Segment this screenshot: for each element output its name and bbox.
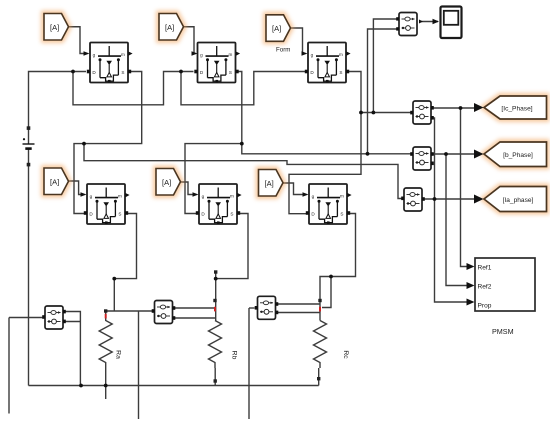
goto tag [b_Phase]: [474, 142, 547, 167]
current measurement block CM5: [152, 301, 176, 324]
wire: phase B M2 source down to CM2 line: [237, 72, 411, 154]
wire: Rb feed vertical: [215, 272, 217, 321]
svg-text:[Ia_phase]: [Ia_phase]: [503, 197, 534, 204]
current measurement block CM6: [255, 296, 279, 319]
voltage measurement block VM1: [396, 13, 423, 36]
svg-text:Form: Form: [276, 47, 290, 54]
wire: tag3 to M3 gate: [291, 28, 305, 54]
wire: VM1 lower input from phase B line: [368, 29, 398, 154]
wire: Ra feed vertical: [113, 279, 115, 311]
current measurement block CM2: [410, 147, 434, 170]
current measurement block CM1: [410, 101, 434, 124]
goto tag [Ic_Phase]: [474, 96, 547, 119]
svg-text:[b_Phase]: [b_Phase]: [503, 152, 533, 159]
wire: DC+ jog to M2 drain: [73, 72, 194, 105]
svg-text:Rc: Rc: [342, 350, 349, 359]
goto tag [Ia_phase]: [474, 187, 547, 212]
wire: Ref1 feed from CM1 output: [461, 108, 472, 267]
wire: phase A from M1 source down-left to M4 drain: [74, 72, 142, 214]
from tag [A] 1: [44, 14, 69, 41]
wire: VM1 upper input from phase C line: [373, 19, 397, 113]
from tag [A] 5: [156, 169, 181, 196]
current measurement block CM3: [401, 188, 425, 211]
svg-text:Ref2: Ref2: [478, 284, 492, 291]
wire: M5 source down to Rb branch: [216, 214, 248, 279]
current measurement block CM4: [42, 306, 66, 329]
scope block: [433, 7, 462, 39]
wire: phase B branch to M5 drain: [185, 144, 242, 214]
wire: CM5 input line down to bottom: [138, 311, 140, 419]
svg-text:PMSM: PMSM: [492, 327, 514, 336]
wire: DC+ jog to M3 drain: [181, 72, 305, 105]
wire: CM5 loop lower to Rb node: [173, 317, 215, 319]
wire: Ref2 feed from CM2 output: [446, 154, 471, 286]
wire: Prop feed line down right of CM blocks: [433, 118, 471, 302]
node: DC+ tap at battery: [71, 70, 75, 74]
wire: Rc bottom to bus corner: [318, 368, 320, 386]
wire: Rb bottom to bus: [214, 368, 216, 386]
svg-text:Ra: Ra: [115, 350, 122, 359]
wire: CM6 input stub: [249, 307, 255, 309]
svg-text:Rb: Rb: [231, 351, 238, 360]
wire: CM4 loop lower: [64, 321, 80, 323]
wire: CM6 loop lower to Rc node: [277, 312, 320, 314]
transistor M1 (MOSFET top leg A): [84, 43, 133, 83]
svg-text:Prop: Prop: [478, 303, 492, 310]
node: VM1 lower tap: [366, 152, 370, 156]
transistor M4 (MOSFET bottom leg A): [81, 184, 130, 224]
from tag [A] 3: [266, 15, 291, 54]
PMSM subsystem block: [467, 258, 536, 336]
from tag [A] 2: [159, 14, 184, 41]
wire: CM6 input line down to bottom: [248, 308, 250, 419]
resistor Ra: [99, 309, 122, 368]
transistor M6 (MOSFET bottom leg C): [303, 184, 352, 224]
node: Ra feed junction: [112, 277, 116, 281]
wire: CM4 input stub from left: [9, 317, 44, 319]
svg-text:Ref1: Ref1: [478, 265, 492, 272]
wire: tag2 to M2 gate: [184, 27, 196, 54]
node: Rb feed junction: [214, 277, 218, 281]
wire: tag4 to M4 gate: [68, 181, 81, 195]
wire: CM2 output to b_Phase goto: [433, 153, 475, 155]
node: phase A tap: [82, 142, 86, 146]
wire: VM1 output to scope: [419, 21, 438, 23]
node: phase C to CM1: [359, 111, 363, 115]
from tag [A] 4: [44, 168, 69, 195]
resistor Rc: [314, 299, 350, 381]
wire: Rc measurement side loop: [322, 277, 331, 308]
battery / DC voltage source: [23, 126, 35, 166]
resistor Rb: [209, 270, 238, 382]
wire: bottom bus: [29, 385, 319, 387]
wire: Ra top jog line to CM5 input: [106, 310, 152, 312]
wire: Ra resistor bottom to bus with stub: [105, 368, 107, 399]
wire: M4 source down to Ra branch: [114, 214, 136, 279]
wire: battery negative down to bottom bus: [28, 150, 30, 386]
wire: CM3 output to Ia_phase goto: [425, 198, 476, 200]
transistor M2 (MOSFET top leg B): [192, 43, 241, 83]
wire: CM4 left stub down: [8, 318, 10, 414]
node: phase B junction: [240, 142, 244, 146]
node: Ref1 tap: [459, 106, 463, 110]
wire: M6 source down-left to Rc top: [320, 214, 356, 321]
node: Ra bottom on bus: [104, 384, 108, 388]
wire: phase C M3 source down: [289, 72, 361, 214]
from tag [A] 6: [259, 170, 284, 197]
node: Rc loop branch: [329, 275, 333, 279]
node: Ref2 tap: [444, 152, 448, 156]
node: VM1 upper tap: [372, 111, 376, 115]
wire: DC+ rail battery to M1 drain: [29, 72, 87, 145]
wire: CM5 loop upper to Rb node: [173, 307, 215, 309]
transistor M3 (MOSFET top leg C): [302, 43, 351, 83]
svg-text:[Ic_Phase]: [Ic_Phase]: [501, 105, 532, 112]
wire: CM1 output to Ic_Phase goto: [433, 107, 475, 109]
node: CM4 loop on bus: [79, 384, 83, 388]
wire: tag5 to M5 gate: [180, 182, 193, 195]
wire: tag6 to M6 gate: [283, 183, 303, 195]
node: Ia tap on Prop feed: [433, 197, 437, 201]
wire: phase A tap to line B towards CM3: [84, 144, 402, 199]
node: DC+ tap after M2 drain: [179, 70, 183, 74]
wire: CM4 loop upper to bus: [64, 312, 80, 386]
transistor M5 (MOSFET bottom leg B): [193, 184, 242, 224]
wire: CM6 loop upper to Rc node: [277, 303, 320, 305]
wire: tag1 to M1 gate: [69, 27, 85, 54]
wire: phase C tap to CM1 input: [361, 112, 411, 114]
